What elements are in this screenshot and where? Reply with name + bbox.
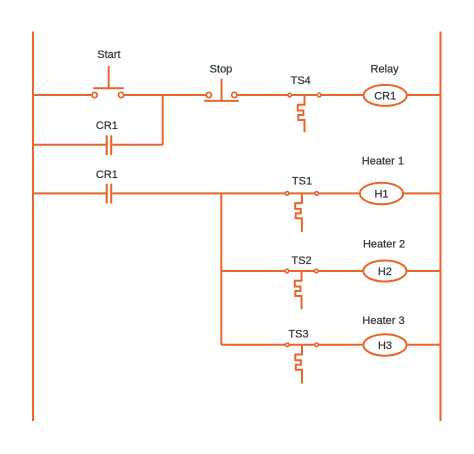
wire rung2: L1 to contact CR1 — [33, 192, 106, 194]
power rail L2 (right) — [440, 32, 442, 422]
thermal switch TS1 heater element — [295, 193, 302, 232]
svg-text:CR1: CR1 — [96, 120, 118, 132]
wire rung2: H1 to L2 — [403, 192, 441, 194]
svg-text:TS2: TS2 — [292, 255, 312, 267]
wire rung1: Start to Stop — [124, 94, 205, 96]
wire rung1: L1 to Start — [33, 94, 91, 96]
wire rung1: coil CR1 to L2 — [407, 94, 441, 96]
load H2 (heater coil) — [363, 261, 406, 282]
thermal switch TS4 terminals — [288, 93, 321, 97]
svg-text:Heater 1: Heater 1 — [362, 156, 404, 168]
wire rung4: H3 to L2 — [407, 344, 441, 346]
power rail L1 (left) — [32, 32, 34, 422]
thermal switch TS4 heater element — [298, 95, 305, 132]
thermal switch TS1 terminals — [285, 192, 318, 196]
pushbutton Start contact terminals — [92, 92, 124, 97]
svg-text:Start: Start — [97, 49, 120, 61]
svg-text:TS4: TS4 — [291, 75, 311, 87]
contact CR1 (rung2) — [107, 184, 112, 204]
pushbutton Stop (N.C.) actuator — [204, 79, 239, 101]
svg-text:TS3: TS3 — [288, 328, 308, 340]
svg-text:CR1: CR1 — [374, 90, 396, 102]
svg-text:H2: H2 — [378, 266, 392, 278]
wire branch down from rung2 to rung4 — [220, 193, 222, 344]
svg-text:Stop: Stop — [210, 64, 233, 76]
thermal switch TS3 terminals — [286, 343, 319, 347]
relay coil CR1 — [364, 85, 407, 106]
wire rung4: branch to TS3 to H3 — [221, 344, 363, 346]
wire rung3: branch to TS2 to H2 — [221, 270, 363, 272]
svg-text:H3: H3 — [378, 340, 392, 352]
pushbutton Stop contact terminals — [206, 92, 237, 97]
wire rung2: contact CR1 to TS1 to H1 — [112, 192, 360, 194]
wire seal-in branch: L1 to contact CR1 — [33, 144, 106, 146]
thermal switch TS2 heater element — [295, 271, 302, 309]
contact CR1 (seal-in) — [107, 135, 112, 155]
svg-text:Heater 3: Heater 3 — [362, 315, 404, 327]
pushbutton Start (N.O.) actuator — [93, 66, 123, 88]
thermal switch TS2 terminals — [285, 269, 318, 273]
wire seal-in branch: contact CR1 to junction — [112, 144, 162, 146]
svg-text:CR1: CR1 — [96, 169, 118, 181]
wire rung1: Stop to TS4 to coil CR1 — [238, 94, 364, 96]
svg-text:Relay: Relay — [371, 64, 400, 76]
load H3 (heater coil) — [363, 334, 406, 355]
wire junction branch down from rung1 — [162, 95, 164, 145]
svg-text:Heater 2: Heater 2 — [363, 239, 405, 251]
wire rung3: H2 to L2 — [406, 270, 440, 272]
svg-text:H1: H1 — [374, 188, 388, 200]
thermal switch TS3 heater element — [295, 345, 302, 384]
load H1 (heater coil) — [360, 183, 403, 205]
svg-text:TS1: TS1 — [292, 176, 312, 188]
